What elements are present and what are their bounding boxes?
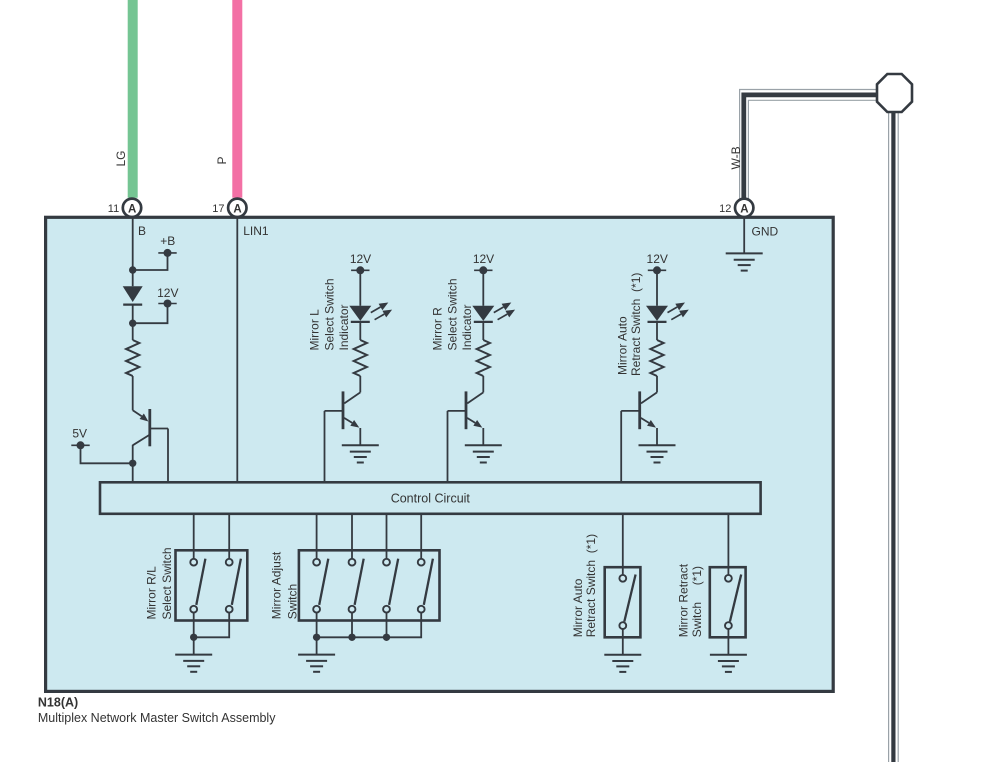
svg-text:12: 12 bbox=[719, 203, 731, 215]
svg-text:Mirror Auto: Mirror Auto bbox=[616, 316, 630, 375]
svg-text:LIN1: LIN1 bbox=[243, 224, 269, 238]
svg-text:B: B bbox=[138, 224, 146, 238]
svg-text:Select Switch: Select Switch bbox=[445, 278, 459, 350]
svg-text:17: 17 bbox=[212, 203, 224, 215]
svg-text:5V: 5V bbox=[72, 427, 87, 441]
svg-text:Control Circuit: Control Circuit bbox=[391, 491, 471, 505]
svg-text:A: A bbox=[740, 204, 748, 216]
svg-text:Switch: Switch bbox=[285, 584, 299, 619]
svg-text:Multiplex Network Master Switc: Multiplex Network Master Switch Assembly bbox=[38, 711, 276, 725]
svg-text:Retract Switch (*1): Retract Switch (*1) bbox=[629, 273, 643, 376]
svg-text:Mirror Auto: Mirror Auto bbox=[571, 578, 585, 637]
svg-text:A: A bbox=[233, 204, 241, 216]
svg-text:W-B: W-B bbox=[729, 146, 743, 169]
svg-text:Mirror Retract: Mirror Retract bbox=[677, 563, 691, 637]
svg-text:Indicator: Indicator bbox=[337, 304, 351, 350]
svg-text:Select Switch: Select Switch bbox=[322, 278, 336, 350]
svg-text:Mirror Adjust: Mirror Adjust bbox=[270, 551, 284, 619]
svg-text:12V: 12V bbox=[350, 252, 371, 266]
svg-text:Mirror L: Mirror L bbox=[308, 309, 322, 351]
svg-text:N18(A): N18(A) bbox=[38, 696, 78, 710]
svg-text:P: P bbox=[215, 156, 229, 164]
svg-text:11: 11 bbox=[108, 203, 119, 215]
svg-text:LG: LG bbox=[114, 150, 128, 166]
svg-text:12V: 12V bbox=[157, 286, 178, 300]
svg-text:12V: 12V bbox=[473, 252, 494, 266]
svg-text:Switch (*1): Switch (*1) bbox=[690, 566, 704, 637]
svg-text:Retract Switch (*1): Retract Switch (*1) bbox=[584, 534, 598, 637]
svg-text:A: A bbox=[128, 204, 136, 216]
svg-text:Select Switch: Select Switch bbox=[160, 547, 174, 619]
svg-text:Mirror R/L: Mirror R/L bbox=[145, 566, 159, 620]
svg-text:+B: +B bbox=[160, 234, 175, 248]
svg-text:Indicator: Indicator bbox=[460, 304, 474, 350]
svg-text:12V: 12V bbox=[647, 252, 668, 266]
svg-text:Mirror R: Mirror R bbox=[431, 307, 445, 351]
svg-text:GND: GND bbox=[752, 224, 779, 238]
